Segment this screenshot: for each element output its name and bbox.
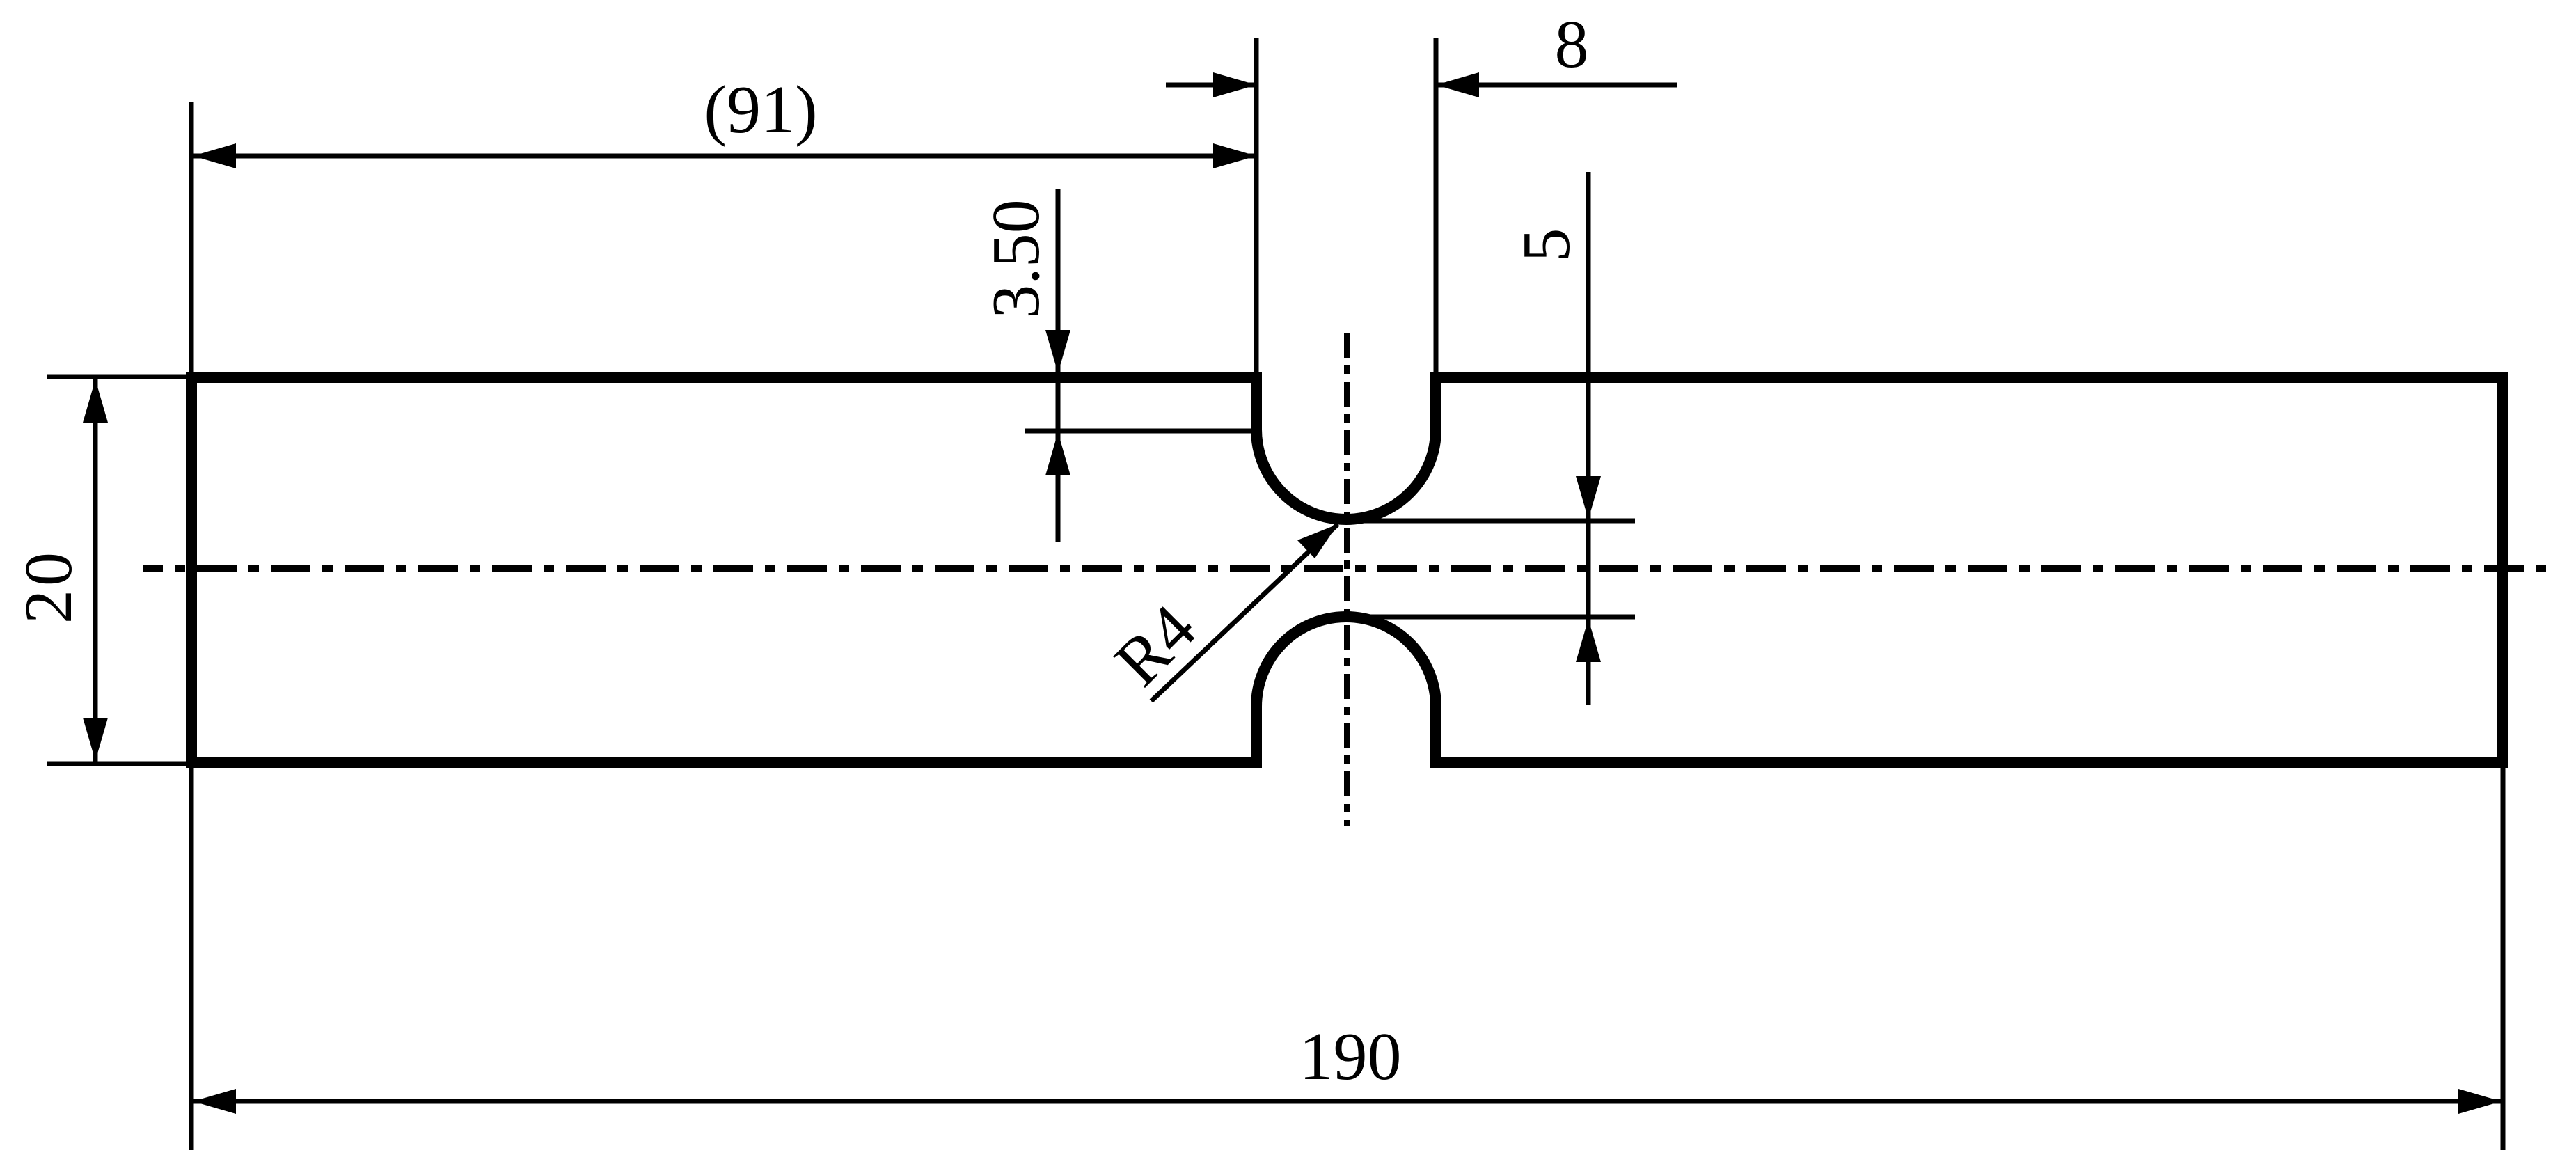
arrowhead (91) right bbox=[1213, 143, 1256, 168]
arrowhead 8 right bbox=[1436, 72, 1479, 97]
arrowhead R4 bbox=[1297, 524, 1338, 558]
specimen outline with top slot and bottom notch bbox=[191, 377, 2502, 762]
arrowhead 20 top bbox=[83, 379, 108, 423]
dimension line 20 bbox=[93, 379, 98, 762]
left extension line x=275 bbox=[189, 102, 194, 1150]
horizontal centerline bbox=[143, 565, 2554, 572]
20 top extension line bbox=[47, 375, 191, 379]
svg-text:5: 5 bbox=[1509, 228, 1584, 262]
svg-text:190: 190 bbox=[1299, 1019, 1402, 1094]
arrowhead 190 right bbox=[2458, 1089, 2502, 1114]
dimension line 8 right part bbox=[1436, 83, 1677, 88]
20 bottom extension line bbox=[47, 762, 191, 766]
R4 leader line bbox=[1151, 524, 1338, 701]
svg-text:(91): (91) bbox=[704, 72, 817, 148]
arrowhead 190 left bbox=[193, 1089, 236, 1114]
arrowhead 20 bottom bbox=[83, 718, 108, 761]
arrowhead 3.50 lower bbox=[1045, 432, 1070, 475]
arrowhead 5 lower bbox=[1576, 619, 1601, 662]
5 top extension line bbox=[1346, 519, 1635, 524]
3.50 extension line bbox=[1025, 429, 1256, 434]
dimension line 190 bbox=[193, 1099, 2502, 1104]
arrowhead 3.50 upper bbox=[1045, 330, 1070, 373]
right extension line x=3596 bbox=[2501, 766, 2506, 1150]
arrowhead 8 left bbox=[1213, 72, 1256, 97]
5 bottom extension line bbox=[1346, 615, 1635, 620]
svg-text:3.50: 3.50 bbox=[979, 199, 1054, 319]
dimension line (91) bbox=[193, 154, 1256, 159]
arrowhead (91) left bbox=[193, 143, 236, 168]
arrowhead 5 upper bbox=[1576, 476, 1601, 519]
slot left wall extension line bbox=[1254, 38, 1259, 377]
svg-text:8: 8 bbox=[1555, 7, 1589, 82]
dimension line 8 left part bbox=[1166, 83, 1256, 88]
dimension line 5 bbox=[1586, 172, 1591, 705]
svg-text:20: 20 bbox=[11, 549, 86, 624]
vertical centerline of notch bbox=[1344, 333, 1350, 826]
slot right wall extension line bbox=[1434, 38, 1439, 377]
dimension line 3.50 bbox=[1056, 189, 1061, 542]
